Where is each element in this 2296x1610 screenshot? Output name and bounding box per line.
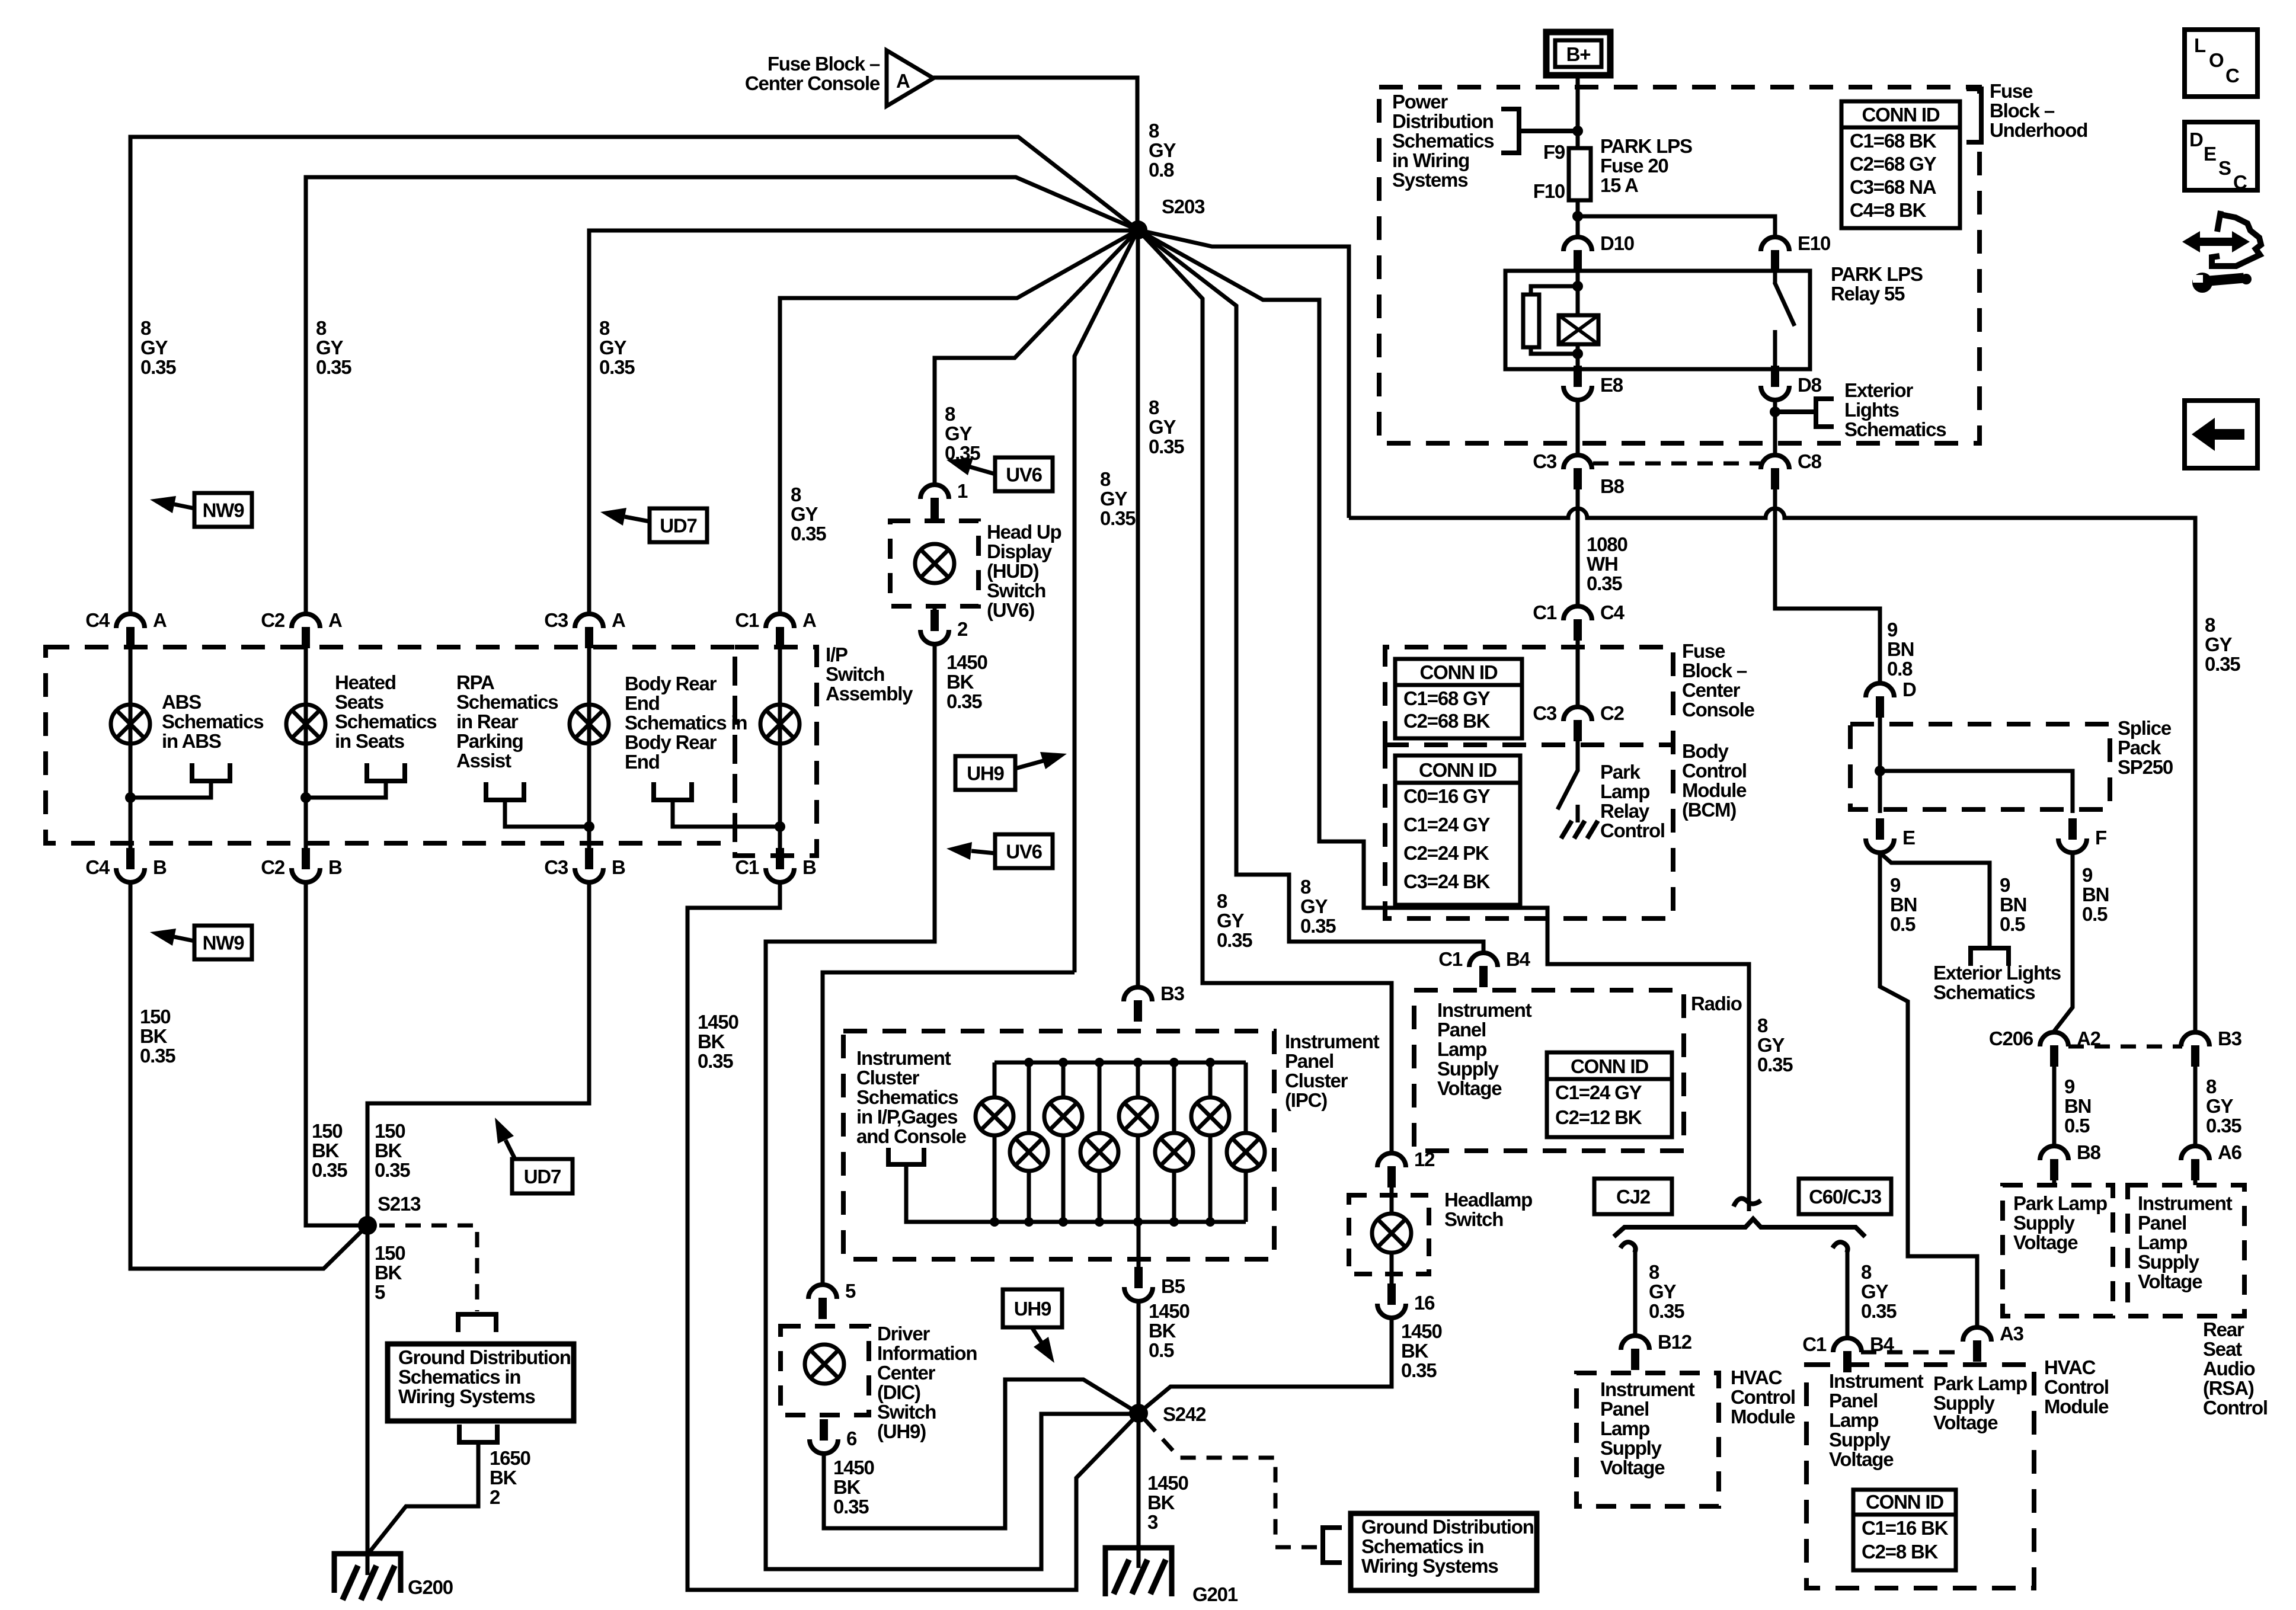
svg-text:Park: Park bbox=[1600, 761, 1641, 783]
svg-text:Control: Control bbox=[1600, 820, 1665, 841]
svg-text:Head Up: Head Up bbox=[987, 521, 1061, 543]
svg-text:C1: C1 bbox=[735, 609, 759, 631]
svg-text:C4: C4 bbox=[85, 856, 110, 878]
svg-text:BK: BK bbox=[490, 1467, 517, 1489]
svg-text:0.5: 0.5 bbox=[2000, 913, 2025, 935]
svg-text:Lamp: Lamp bbox=[1437, 1038, 1486, 1060]
svg-text:A3: A3 bbox=[2000, 1323, 2024, 1345]
svg-text:CONN ID: CONN ID bbox=[1866, 1491, 1943, 1513]
svg-text:0.35: 0.35 bbox=[791, 523, 826, 545]
svg-text:Schematics in: Schematics in bbox=[1361, 1535, 1483, 1557]
svg-text:in Seats: in Seats bbox=[335, 730, 404, 752]
svg-text:B: B bbox=[328, 856, 342, 878]
svg-text:Exterior Lights: Exterior Lights bbox=[1933, 962, 2061, 984]
svg-text:Schematics: Schematics bbox=[856, 1086, 958, 1108]
svg-text:End: End bbox=[625, 692, 660, 714]
svg-text:Instrument: Instrument bbox=[1437, 999, 1532, 1021]
svg-text:S: S bbox=[2218, 157, 2231, 179]
svg-text:GY: GY bbox=[2205, 633, 2232, 655]
svg-text:S242: S242 bbox=[1163, 1403, 1206, 1425]
svg-text:0.35: 0.35 bbox=[1861, 1300, 1897, 1322]
svg-text:Systems: Systems bbox=[1392, 169, 1467, 191]
svg-text:9: 9 bbox=[2064, 1076, 2075, 1097]
svg-text:Center: Center bbox=[1682, 679, 1741, 701]
svg-text:1450: 1450 bbox=[698, 1011, 738, 1033]
svg-text:Schematics: Schematics bbox=[1844, 418, 1946, 440]
svg-text:BK: BK bbox=[140, 1025, 168, 1047]
svg-text:8: 8 bbox=[2206, 1076, 2217, 1097]
svg-text:(IPC): (IPC) bbox=[1285, 1089, 1327, 1111]
svg-text:150: 150 bbox=[312, 1120, 342, 1142]
svg-text:UV6: UV6 bbox=[1006, 841, 1042, 863]
svg-text:C0=16 GY: C0=16 GY bbox=[1403, 785, 1491, 807]
svg-text:BN: BN bbox=[1887, 638, 1914, 660]
svg-text:BK: BK bbox=[1149, 1320, 1176, 1342]
svg-text:ABS: ABS bbox=[162, 691, 201, 713]
svg-text:PARK LPS: PARK LPS bbox=[1831, 263, 1923, 285]
svg-text:Park Lamp: Park Lamp bbox=[1933, 1372, 2027, 1394]
svg-text:150: 150 bbox=[375, 1120, 405, 1142]
svg-text:B12: B12 bbox=[1658, 1331, 1692, 1353]
svg-text:A: A bbox=[802, 609, 816, 631]
svg-text:0.5: 0.5 bbox=[2082, 903, 2108, 925]
svg-text:BK: BK bbox=[375, 1262, 402, 1283]
svg-text:Fuse: Fuse bbox=[1682, 640, 1725, 662]
svg-text:C3: C3 bbox=[544, 856, 568, 878]
svg-text:I/P: I/P bbox=[826, 644, 848, 665]
svg-text:Control: Control bbox=[2044, 1376, 2109, 1398]
svg-text:BK: BK bbox=[375, 1140, 402, 1161]
svg-text:Schematics in: Schematics in bbox=[625, 712, 747, 734]
svg-text:Body: Body bbox=[1682, 740, 1729, 762]
svg-text:Supply: Supply bbox=[1437, 1058, 1499, 1080]
svg-text:Lamp: Lamp bbox=[1600, 780, 1649, 802]
svg-text:Fuse: Fuse bbox=[1990, 80, 2033, 102]
svg-text:Instrument: Instrument bbox=[2138, 1192, 2233, 1214]
svg-text:Switch: Switch bbox=[987, 580, 1045, 601]
svg-text:0.35: 0.35 bbox=[375, 1159, 410, 1181]
svg-text:C60/CJ3: C60/CJ3 bbox=[1809, 1186, 1882, 1208]
svg-text:Module: Module bbox=[1682, 779, 1747, 801]
svg-text:Audio: Audio bbox=[2203, 1358, 2255, 1379]
svg-text:A: A bbox=[153, 609, 167, 631]
svg-text:Panel: Panel bbox=[1600, 1398, 1649, 1420]
svg-text:8: 8 bbox=[1217, 890, 1227, 912]
svg-text:0.35: 0.35 bbox=[1401, 1359, 1437, 1381]
svg-text:BN: BN bbox=[2082, 884, 2109, 905]
svg-text:Underhood: Underhood bbox=[1990, 119, 2087, 141]
svg-text:5: 5 bbox=[845, 1280, 856, 1302]
svg-text:BK: BK bbox=[1147, 1491, 1175, 1513]
svg-text:F: F bbox=[2095, 827, 2106, 849]
svg-text:B: B bbox=[153, 856, 167, 878]
svg-text:8: 8 bbox=[1649, 1261, 1659, 1283]
svg-text:F10: F10 bbox=[1533, 180, 1565, 202]
svg-text:Control: Control bbox=[1682, 760, 1747, 782]
svg-text:Module: Module bbox=[1731, 1406, 1795, 1427]
svg-text:150: 150 bbox=[375, 1242, 405, 1264]
svg-text:GY: GY bbox=[945, 422, 972, 444]
svg-text:B8: B8 bbox=[1600, 475, 1625, 497]
svg-text:Schematics in: Schematics in bbox=[398, 1366, 520, 1388]
svg-text:2: 2 bbox=[957, 618, 968, 640]
svg-text:C1=16 BK: C1=16 BK bbox=[1862, 1517, 1949, 1539]
svg-text:Supply: Supply bbox=[2013, 1212, 2076, 1234]
svg-text:BK: BK bbox=[1401, 1340, 1429, 1362]
svg-text:Voltage: Voltage bbox=[1437, 1077, 1502, 1099]
svg-text:Instrument: Instrument bbox=[1600, 1378, 1695, 1400]
svg-text:0.8: 0.8 bbox=[1887, 658, 1913, 680]
svg-text:E: E bbox=[2204, 143, 2216, 165]
svg-text:C1: C1 bbox=[1533, 601, 1557, 623]
svg-text:Heated: Heated bbox=[335, 671, 396, 693]
svg-text:0.35: 0.35 bbox=[698, 1050, 733, 1072]
svg-text:3: 3 bbox=[1147, 1511, 1158, 1533]
svg-text:8: 8 bbox=[140, 317, 151, 339]
svg-text:Center: Center bbox=[877, 1362, 936, 1384]
svg-text:Supply: Supply bbox=[2138, 1251, 2200, 1273]
svg-text:Voltage: Voltage bbox=[1829, 1448, 1894, 1470]
svg-text:C206: C206 bbox=[1989, 1028, 2033, 1049]
svg-text:Instrument: Instrument bbox=[1829, 1370, 1924, 1392]
svg-text:0.35: 0.35 bbox=[1649, 1300, 1684, 1322]
svg-text:0.8: 0.8 bbox=[1149, 159, 1174, 181]
svg-text:150: 150 bbox=[140, 1006, 170, 1028]
svg-text:(UV6): (UV6) bbox=[987, 599, 1034, 621]
svg-text:GY: GY bbox=[1649, 1281, 1676, 1302]
svg-text:Lamp: Lamp bbox=[1829, 1409, 1878, 1431]
svg-text:Supply: Supply bbox=[1829, 1429, 1891, 1451]
svg-text:A: A bbox=[612, 609, 625, 631]
svg-text:8: 8 bbox=[791, 484, 801, 505]
svg-text:C: C bbox=[2225, 65, 2239, 87]
svg-text:GY: GY bbox=[140, 337, 168, 359]
svg-text:UH9: UH9 bbox=[1014, 1298, 1051, 1320]
svg-text:8: 8 bbox=[1300, 876, 1311, 898]
svg-text:Voltage: Voltage bbox=[1933, 1411, 1998, 1433]
svg-text:GY: GY bbox=[1149, 139, 1176, 161]
svg-text:UD7: UD7 bbox=[524, 1166, 561, 1188]
svg-text:CONN ID: CONN ID bbox=[1420, 661, 1498, 683]
svg-text:SP250: SP250 bbox=[2118, 756, 2173, 778]
svg-text:C1: C1 bbox=[1802, 1333, 1827, 1355]
svg-text:(HUD): (HUD) bbox=[987, 560, 1039, 582]
svg-text:C3=24 BK: C3=24 BK bbox=[1403, 870, 1491, 892]
svg-text:2: 2 bbox=[490, 1486, 500, 1508]
svg-text:C1=24 GY: C1=24 GY bbox=[1403, 814, 1491, 836]
svg-text:C4=8 BK: C4=8 BK bbox=[1850, 199, 1927, 221]
svg-text:B8: B8 bbox=[2077, 1141, 2101, 1163]
svg-text:1450: 1450 bbox=[833, 1457, 874, 1478]
svg-text:RPA: RPA bbox=[456, 671, 494, 693]
svg-text:Voltage: Voltage bbox=[2138, 1270, 2202, 1292]
svg-text:CJ2: CJ2 bbox=[1616, 1186, 1651, 1208]
svg-text:A: A bbox=[328, 609, 342, 631]
svg-text:Fuse 20: Fuse 20 bbox=[1600, 155, 1668, 177]
svg-text:Switch: Switch bbox=[877, 1401, 936, 1423]
svg-text:8: 8 bbox=[1149, 396, 1159, 418]
svg-text:0.35: 0.35 bbox=[1757, 1054, 1793, 1076]
svg-text:C2=24 PK: C2=24 PK bbox=[1403, 842, 1489, 864]
svg-text:Instrument: Instrument bbox=[1285, 1030, 1380, 1052]
svg-text:1450: 1450 bbox=[1147, 1472, 1188, 1494]
svg-text:D8: D8 bbox=[1798, 374, 1822, 396]
svg-text:0.35: 0.35 bbox=[1100, 507, 1136, 529]
svg-text:D: D bbox=[2189, 129, 2203, 151]
svg-text:Distribution: Distribution bbox=[1392, 110, 1494, 132]
svg-text:B5: B5 bbox=[1161, 1275, 1185, 1297]
svg-text:8: 8 bbox=[2205, 614, 2215, 636]
svg-text:A: A bbox=[896, 70, 910, 92]
svg-text:Splice: Splice bbox=[2118, 717, 2172, 739]
svg-text:C2=68 GY: C2=68 GY bbox=[1850, 153, 1937, 175]
svg-text:0.35: 0.35 bbox=[1217, 929, 1252, 951]
svg-text:B4: B4 bbox=[1506, 948, 1531, 970]
svg-text:CONN ID: CONN ID bbox=[1571, 1055, 1648, 1077]
svg-text:0.35: 0.35 bbox=[2205, 653, 2240, 675]
svg-text:C1=68 GY: C1=68 GY bbox=[1403, 687, 1491, 709]
svg-text:HVAC: HVAC bbox=[2044, 1356, 2096, 1378]
svg-text:S203: S203 bbox=[1162, 196, 1205, 217]
svg-text:Rear: Rear bbox=[2203, 1318, 2244, 1340]
svg-text:0.35: 0.35 bbox=[599, 356, 635, 378]
svg-text:C3=68 NA: C3=68 NA bbox=[1850, 176, 1936, 198]
svg-text:Schematics: Schematics bbox=[162, 710, 263, 732]
svg-text:O: O bbox=[2209, 49, 2224, 71]
svg-text:0.35: 0.35 bbox=[1300, 915, 1336, 937]
svg-text:1: 1 bbox=[957, 480, 968, 502]
svg-text:GY: GY bbox=[1861, 1281, 1888, 1302]
svg-text:16: 16 bbox=[1414, 1292, 1435, 1314]
svg-text:C2=68 BK: C2=68 BK bbox=[1403, 710, 1491, 732]
svg-text:Relay 55: Relay 55 bbox=[1831, 283, 1905, 305]
svg-text:F9: F9 bbox=[1543, 141, 1565, 163]
svg-text:GY: GY bbox=[316, 337, 343, 359]
svg-text:C2=8 BK: C2=8 BK bbox=[1862, 1541, 1939, 1563]
svg-text:GY: GY bbox=[599, 337, 626, 359]
svg-text:0.35: 0.35 bbox=[2206, 1115, 2241, 1137]
svg-text:Instrument: Instrument bbox=[856, 1047, 951, 1069]
svg-text:Seat: Seat bbox=[2203, 1338, 2242, 1360]
svg-text:Assist: Assist bbox=[456, 750, 511, 772]
svg-text:B3: B3 bbox=[2218, 1028, 2242, 1049]
svg-text:BN: BN bbox=[2000, 894, 2026, 916]
svg-text:End: End bbox=[625, 751, 660, 773]
svg-text:in ABS: in ABS bbox=[162, 730, 221, 752]
svg-text:C1=24 GY: C1=24 GY bbox=[1555, 1081, 1642, 1103]
svg-text:D: D bbox=[1902, 678, 1916, 700]
svg-text:Module: Module bbox=[2044, 1395, 2109, 1417]
svg-text:B+: B+ bbox=[1566, 43, 1591, 65]
svg-text:8: 8 bbox=[599, 317, 610, 339]
svg-text:Relay: Relay bbox=[1600, 800, 1650, 822]
svg-text:Schematics: Schematics bbox=[1933, 981, 2035, 1003]
svg-text:8: 8 bbox=[316, 317, 327, 339]
svg-text:15 A: 15 A bbox=[1600, 174, 1638, 196]
svg-text:C4: C4 bbox=[85, 609, 110, 631]
svg-text:in Wiring: in Wiring bbox=[1392, 149, 1469, 171]
svg-text:Park Lamp: Park Lamp bbox=[2013, 1192, 2107, 1214]
svg-text:GY: GY bbox=[1100, 488, 1127, 510]
svg-text:C3: C3 bbox=[544, 609, 568, 631]
svg-text:C2: C2 bbox=[261, 609, 285, 631]
svg-text:Pack: Pack bbox=[2118, 737, 2161, 758]
svg-text:and Console: and Console bbox=[856, 1125, 967, 1147]
svg-text:C2: C2 bbox=[261, 856, 285, 878]
svg-text:NW9: NW9 bbox=[203, 932, 245, 954]
svg-text:in I/P,Gages: in I/P,Gages bbox=[856, 1106, 957, 1128]
svg-text:Schematics: Schematics bbox=[1392, 130, 1494, 152]
svg-text:D10: D10 bbox=[1600, 232, 1634, 254]
svg-text:Lamp: Lamp bbox=[2138, 1231, 2187, 1253]
svg-text:C1: C1 bbox=[1438, 948, 1463, 970]
svg-text:(BCM): (BCM) bbox=[1682, 799, 1736, 821]
svg-text:Supply: Supply bbox=[1933, 1392, 1996, 1414]
svg-text:9: 9 bbox=[2000, 874, 2010, 896]
svg-text:C3: C3 bbox=[1533, 702, 1557, 724]
svg-text:C8: C8 bbox=[1798, 450, 1822, 472]
svg-text:Panel: Panel bbox=[2138, 1212, 2186, 1234]
svg-text:9: 9 bbox=[2082, 864, 2093, 886]
svg-text:B: B bbox=[612, 856, 625, 878]
svg-text:Block –: Block – bbox=[1990, 100, 2055, 121]
svg-text:0.5: 0.5 bbox=[2064, 1115, 2090, 1137]
svg-text:0.5: 0.5 bbox=[1149, 1339, 1174, 1361]
svg-text:5: 5 bbox=[375, 1281, 385, 1303]
svg-text:Body Rear: Body Rear bbox=[625, 731, 717, 753]
svg-text:GY: GY bbox=[1757, 1034, 1785, 1056]
svg-text:GY: GY bbox=[791, 503, 818, 525]
svg-text:Supply: Supply bbox=[1600, 1437, 1662, 1459]
svg-text:Body Rear: Body Rear bbox=[625, 673, 717, 694]
svg-text:GY: GY bbox=[2206, 1095, 2233, 1117]
svg-text:Cluster: Cluster bbox=[856, 1067, 920, 1089]
svg-text:8: 8 bbox=[1149, 120, 1159, 142]
svg-text:CONN ID: CONN ID bbox=[1862, 104, 1940, 126]
svg-text:Ground Distribution: Ground Distribution bbox=[1361, 1516, 1534, 1538]
svg-text:E10: E10 bbox=[1798, 232, 1830, 254]
svg-text:8: 8 bbox=[945, 403, 955, 425]
svg-text:Exterior: Exterior bbox=[1844, 379, 1913, 401]
svg-text:Assembly: Assembly bbox=[826, 683, 913, 705]
svg-text:Panel: Panel bbox=[1829, 1390, 1878, 1411]
svg-text:8: 8 bbox=[1861, 1261, 1872, 1283]
svg-text:0.35: 0.35 bbox=[833, 1496, 869, 1518]
svg-text:Parking: Parking bbox=[456, 730, 523, 752]
svg-text:B3: B3 bbox=[1160, 982, 1185, 1004]
svg-text:(RSA): (RSA) bbox=[2203, 1377, 2254, 1399]
svg-text:C3: C3 bbox=[1533, 450, 1557, 472]
svg-text:Fuse Block –: Fuse Block – bbox=[768, 53, 880, 75]
svg-text:Wiring Systems: Wiring Systems bbox=[1361, 1555, 1498, 1577]
svg-text:0.35: 0.35 bbox=[1587, 572, 1622, 594]
svg-text:NW9: NW9 bbox=[203, 500, 245, 521]
svg-text:C1: C1 bbox=[735, 856, 759, 878]
svg-text:UD7: UD7 bbox=[660, 515, 696, 537]
svg-text:L: L bbox=[2194, 34, 2206, 56]
svg-text:1080: 1080 bbox=[1587, 533, 1627, 555]
svg-text:Switch: Switch bbox=[1444, 1208, 1503, 1230]
svg-text:Headlamp: Headlamp bbox=[1444, 1189, 1532, 1211]
svg-text:Information: Information bbox=[877, 1342, 977, 1364]
svg-text:BK: BK bbox=[946, 671, 974, 693]
svg-text:A6: A6 bbox=[2218, 1141, 2242, 1163]
svg-text:Switch: Switch bbox=[826, 663, 884, 685]
svg-text:1450: 1450 bbox=[946, 651, 987, 673]
svg-text:BN: BN bbox=[2064, 1095, 2091, 1117]
svg-text:1450: 1450 bbox=[1401, 1320, 1442, 1342]
svg-text:Lamp: Lamp bbox=[1600, 1417, 1649, 1439]
svg-text:E8: E8 bbox=[1600, 374, 1623, 396]
svg-text:0.35: 0.35 bbox=[140, 1045, 175, 1067]
svg-text:UV6: UV6 bbox=[1006, 464, 1042, 486]
svg-text:Schematics: Schematics bbox=[456, 691, 558, 713]
svg-text:0.35: 0.35 bbox=[312, 1159, 347, 1181]
svg-text:0.35: 0.35 bbox=[946, 690, 982, 712]
svg-text:Cluster: Cluster bbox=[1285, 1070, 1348, 1092]
svg-text:9: 9 bbox=[1887, 619, 1898, 641]
svg-text:Radio: Radio bbox=[1691, 993, 1742, 1014]
svg-text:9: 9 bbox=[1890, 874, 1901, 896]
svg-text:S213: S213 bbox=[378, 1193, 421, 1215]
svg-text:C1=68 BK: C1=68 BK bbox=[1850, 130, 1937, 152]
svg-text:WH: WH bbox=[1587, 553, 1618, 575]
svg-text:BK: BK bbox=[312, 1140, 340, 1161]
svg-text:GY: GY bbox=[1300, 895, 1328, 917]
svg-text:Lights: Lights bbox=[1844, 399, 1899, 421]
svg-text:Panel: Panel bbox=[1437, 1019, 1486, 1041]
svg-text:Wiring Systems: Wiring Systems bbox=[398, 1385, 535, 1407]
svg-text:PARK LPS: PARK LPS bbox=[1600, 135, 1692, 157]
svg-text:Seats: Seats bbox=[335, 691, 383, 713]
svg-text:G200: G200 bbox=[408, 1576, 453, 1598]
svg-text:0.5: 0.5 bbox=[1890, 913, 1916, 935]
svg-text:C2: C2 bbox=[1600, 702, 1625, 724]
svg-text:C2=12 BK: C2=12 BK bbox=[1555, 1106, 1642, 1128]
svg-text:BK: BK bbox=[833, 1476, 861, 1498]
svg-text:E: E bbox=[1902, 827, 1915, 849]
svg-text:CONN ID: CONN ID bbox=[1419, 759, 1496, 781]
svg-text:G201: G201 bbox=[1192, 1583, 1238, 1605]
svg-text:8: 8 bbox=[1757, 1014, 1768, 1036]
svg-text:Driver: Driver bbox=[877, 1323, 930, 1345]
svg-text:Voltage: Voltage bbox=[2013, 1231, 2078, 1253]
svg-text:Schematics: Schematics bbox=[335, 710, 436, 732]
svg-text:Ground Distribution: Ground Distribution bbox=[398, 1346, 571, 1368]
svg-text:Center Console: Center Console bbox=[745, 72, 880, 94]
svg-text:1650: 1650 bbox=[490, 1447, 530, 1469]
svg-text:C: C bbox=[2233, 171, 2247, 193]
svg-text:B: B bbox=[802, 856, 816, 878]
svg-text:in Rear: in Rear bbox=[456, 710, 519, 732]
svg-text:Panel: Panel bbox=[1285, 1050, 1334, 1072]
svg-text:BK: BK bbox=[698, 1030, 725, 1052]
svg-text:Control: Control bbox=[1731, 1386, 1795, 1408]
svg-text:C4: C4 bbox=[1600, 601, 1625, 623]
svg-text:Block –: Block – bbox=[1682, 660, 1747, 681]
svg-text:Power: Power bbox=[1392, 91, 1448, 113]
svg-text:HVAC: HVAC bbox=[1731, 1366, 1782, 1388]
svg-text:1450: 1450 bbox=[1149, 1300, 1189, 1322]
svg-text:6: 6 bbox=[846, 1427, 857, 1449]
svg-text:Display: Display bbox=[987, 540, 1053, 562]
svg-text:Console: Console bbox=[1682, 699, 1755, 721]
svg-text:0.35: 0.35 bbox=[316, 356, 351, 378]
svg-text:0.35: 0.35 bbox=[140, 356, 176, 378]
svg-text:BN: BN bbox=[1890, 894, 1917, 916]
svg-text:8: 8 bbox=[1100, 468, 1111, 490]
svg-text:Voltage: Voltage bbox=[1600, 1457, 1665, 1478]
